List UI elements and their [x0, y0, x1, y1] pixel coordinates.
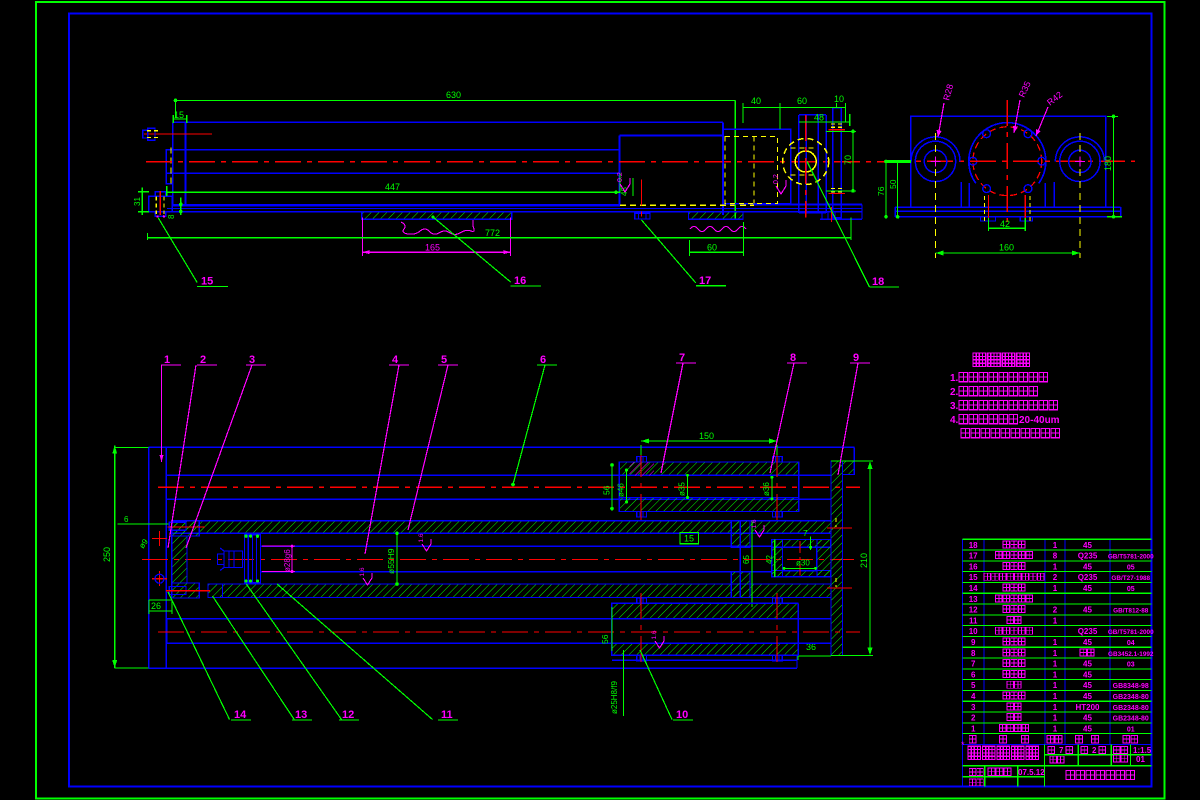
- svg-text:70: 70: [843, 155, 853, 165]
- svg-text:7: 7: [971, 660, 976, 669]
- dim phi25: [610, 650, 623, 716]
- head foot: [208, 584, 223, 598]
- svg-text:GB8348-98: GB8348-98: [1113, 683, 1149, 690]
- cyl bottom band: [223, 584, 832, 598]
- ear left: [911, 133, 961, 258]
- svg-text:250: 250: [102, 547, 112, 562]
- svg-text:1: 1: [1053, 724, 1058, 733]
- top-left bolt: [143, 128, 212, 140]
- svg-text:11: 11: [969, 616, 978, 625]
- lower-left bolt: [149, 191, 172, 217]
- svg-text:150: 150: [699, 431, 714, 441]
- svg-text:05: 05: [1127, 586, 1135, 593]
- svg-text:2: 2: [1053, 606, 1058, 615]
- guide rod upper: [158, 475, 860, 499]
- boss arc: [969, 123, 1046, 184]
- svg-text:1: 1: [164, 354, 170, 366]
- svg-text:GB3452.1-1992: GB3452.1-1992: [1108, 651, 1154, 658]
- dim 772: [148, 218, 852, 241]
- technical requirements: [950, 353, 1060, 438]
- svg-text:GB/T27-1988: GB/T27-1988: [1111, 575, 1150, 582]
- clevis dims: [742, 521, 817, 607]
- svg-text:1: 1: [1053, 616, 1058, 625]
- svg-text:45: 45: [1083, 714, 1092, 723]
- svg-text:07.5.12: 07.5.12: [1018, 768, 1045, 777]
- dim 210: [831, 461, 873, 656]
- svg-text:8: 8: [790, 352, 796, 364]
- end view base: [895, 207, 1121, 217]
- svg-text:65: 65: [742, 555, 751, 564]
- title block text: [961, 740, 1152, 786]
- svg-text:45: 45: [1083, 541, 1092, 550]
- svg-text:165: 165: [425, 243, 440, 253]
- wavy 1: [401, 220, 474, 235]
- callout 9: [838, 352, 870, 475]
- dim 36: [798, 642, 831, 660]
- pad 1: [362, 212, 512, 220]
- svg-text:GB/T5781-2000: GB/T5781-2000: [1108, 629, 1154, 636]
- bolt right: [822, 207, 841, 222]
- svg-text:03: 03: [1127, 662, 1135, 669]
- end view body: [911, 116, 1106, 207]
- svg-text:10: 10: [969, 627, 978, 636]
- svg-text:17: 17: [969, 552, 978, 561]
- shaft housing: [799, 115, 826, 213]
- callout 11: [277, 584, 458, 721]
- bearing upper: [619, 451, 799, 521]
- callout 7: [661, 352, 696, 473]
- dims 40 60 10: [743, 94, 846, 129]
- svg-text:GB/T5781-2000: GB/T5781-2000: [1108, 554, 1154, 561]
- callout 16: [432, 216, 542, 288]
- bolt holes: [969, 130, 1046, 193]
- svg-text:18: 18: [872, 276, 884, 288]
- svg-text:0.2: 0.2: [617, 172, 624, 182]
- label 15 box: [680, 533, 699, 544]
- dim 70: [826, 130, 856, 193]
- dim 76: [876, 160, 888, 219]
- sf mark a: [418, 533, 431, 551]
- svg-text:42: 42: [765, 555, 774, 564]
- svg-text:15: 15: [969, 573, 978, 582]
- housing outline: [149, 447, 855, 668]
- svg-text:GB2348-80: GB2348-80: [1113, 705, 1149, 712]
- end view centerlines: [884, 100, 1135, 222]
- svg-text:16: 16: [514, 275, 526, 287]
- svg-text:56: 56: [600, 634, 610, 644]
- callout 15: [158, 218, 228, 288]
- dim 50: [888, 161, 899, 218]
- bolt mid: [635, 180, 650, 223]
- callout 17: [641, 220, 726, 287]
- svg-text:1: 1: [1053, 681, 1058, 690]
- dim 60: [689, 222, 743, 256]
- svg-text:ø35: ø35: [678, 482, 687, 496]
- boss sides: [969, 183, 1045, 207]
- svg-text:6: 6: [540, 354, 546, 366]
- svg-text:48: 48: [814, 113, 824, 123]
- end flange: [829, 108, 846, 218]
- svg-text:1: 1: [1053, 660, 1058, 669]
- plate holes: [152, 531, 167, 586]
- svg-text:6: 6: [124, 515, 129, 524]
- svg-text:2.: 2.: [950, 387, 959, 398]
- clevis: [772, 539, 831, 577]
- svg-text:31: 31: [133, 197, 142, 206]
- svg-text:05: 05: [1127, 564, 1135, 571]
- svg-text:15: 15: [684, 534, 694, 544]
- svg-text:42: 42: [1000, 219, 1010, 229]
- cyl centerline: [142, 559, 854, 561]
- svg-text:6: 6: [971, 670, 976, 679]
- bearing lower dims: [600, 607, 612, 651]
- foot bolt lines: [985, 195, 1030, 222]
- guide rod lower: [158, 619, 860, 644]
- svg-text:9: 9: [971, 638, 976, 647]
- callout 10: [640, 650, 693, 721]
- svg-text:01: 01: [1127, 726, 1135, 733]
- wavy 2: [690, 227, 746, 232]
- center tick: [886, 160, 911, 163]
- gearbox box: [723, 129, 818, 204]
- svg-text:447: 447: [385, 182, 400, 192]
- svg-text:2: 2: [971, 714, 976, 723]
- dim 8: [167, 198, 183, 220]
- svg-text:180: 180: [1103, 156, 1113, 171]
- dim 630: [174, 90, 736, 219]
- svg-text:ø46: ø46: [617, 483, 626, 497]
- svg-text:160: 160: [999, 243, 1014, 253]
- svg-text:1.6: 1.6: [751, 519, 758, 528]
- svg-text:1: 1: [1053, 692, 1058, 701]
- svg-text:1:1.5: 1:1.5: [1133, 746, 1152, 755]
- svg-text:40: 40: [751, 96, 761, 106]
- svg-text:9: 9: [853, 352, 859, 364]
- svg-text:45: 45: [1083, 638, 1092, 647]
- gland: [731, 521, 750, 598]
- svg-text:26: 26: [151, 601, 161, 611]
- cyl top band: [172, 521, 831, 534]
- label R35: [1013, 80, 1033, 133]
- parts table text: [969, 541, 1154, 743]
- dim 150: [641, 431, 777, 455]
- svg-text:1: 1: [1053, 562, 1058, 571]
- bolt circle R35: [973, 127, 1042, 196]
- svg-text:45: 45: [1083, 562, 1092, 571]
- svg-text:04: 04: [1127, 640, 1135, 647]
- surface mark 2: [773, 174, 786, 194]
- svg-text:50: 50: [888, 179, 898, 189]
- dim 31: [133, 188, 149, 215]
- svg-text:45: 45: [1083, 584, 1092, 593]
- callout 13: [213, 596, 313, 721]
- svg-text:1: 1: [1053, 703, 1058, 712]
- callout 4: [365, 354, 409, 554]
- label R28: [937, 83, 956, 137]
- dim 15 top: [173, 110, 186, 123]
- foot left: [980, 217, 995, 221]
- dim 42 end: [989, 218, 1026, 231]
- parts table grid: [962, 539, 1151, 744]
- piston rod: [261, 546, 772, 571]
- svg-text:3: 3: [971, 703, 976, 712]
- svg-text:45: 45: [1083, 724, 1092, 733]
- svg-text:Q235: Q235: [1078, 552, 1098, 561]
- svg-text:7: 7: [1059, 746, 1064, 755]
- svg-text:8: 8: [971, 649, 976, 658]
- callout 2: [168, 354, 217, 548]
- bearing upper dims: [602, 463, 774, 510]
- svg-text:60: 60: [797, 96, 807, 106]
- svg-text:4: 4: [971, 692, 976, 701]
- dim 26: [149, 600, 172, 614]
- head block: [172, 521, 199, 598]
- svg-text:1.6: 1.6: [651, 630, 658, 639]
- svg-text:GB2348-80: GB2348-80: [1113, 716, 1149, 723]
- svg-text:45: 45: [1083, 692, 1092, 701]
- svg-text:17: 17: [699, 275, 711, 287]
- svg-text:0.2: 0.2: [773, 174, 780, 184]
- callout 5: [408, 354, 458, 530]
- svg-text:76: 76: [876, 186, 886, 196]
- svg-text:10: 10: [676, 709, 688, 721]
- svg-text:01: 01: [1136, 755, 1145, 764]
- svg-text:56: 56: [602, 485, 612, 495]
- svg-text:45: 45: [1083, 681, 1092, 690]
- dim 160: [936, 243, 1080, 256]
- svg-text:13: 13: [295, 709, 307, 721]
- svg-text:10: 10: [834, 94, 844, 104]
- svg-text:14: 14: [234, 709, 247, 721]
- svg-text:1: 1: [1053, 670, 1058, 679]
- top view body: [149, 122, 862, 219]
- label R42: [1036, 90, 1064, 136]
- callout 3: [186, 354, 266, 548]
- svg-text:7: 7: [803, 529, 808, 538]
- svg-text:ø25H8/f9: ø25H8/f9: [610, 681, 619, 714]
- svg-text:16: 16: [969, 562, 978, 571]
- dim 6 phi9: [118, 515, 169, 550]
- svg-text:1: 1: [1053, 584, 1058, 593]
- svg-text:12: 12: [969, 606, 978, 615]
- ear right: [1054, 133, 1104, 258]
- svg-text:3: 3: [249, 354, 255, 366]
- svg-text:1.6: 1.6: [418, 533, 425, 542]
- callout 6: [511, 354, 557, 486]
- callout 14: [168, 592, 251, 721]
- svg-text:5: 5: [971, 681, 976, 690]
- callout 18: [807, 162, 899, 289]
- svg-text:20-40um: 20-40um: [1019, 415, 1060, 426]
- svg-text:45: 45: [1083, 606, 1092, 615]
- svg-text:ø36: ø36: [762, 482, 771, 496]
- svg-text:ø55H9: ø55H9: [386, 548, 396, 574]
- svg-text:8: 8: [1053, 552, 1058, 561]
- surface mark 1: [617, 172, 630, 192]
- svg-text:15: 15: [201, 276, 213, 288]
- svg-text:772: 772: [485, 228, 500, 238]
- svg-text:14: 14: [969, 584, 978, 593]
- svg-text:18: 18: [969, 541, 978, 550]
- svg-text:2: 2: [200, 354, 206, 366]
- sf mark d: [751, 519, 764, 537]
- svg-text:45: 45: [1083, 670, 1092, 679]
- svg-text:1: 1: [971, 724, 976, 733]
- svg-text:1.: 1.: [950, 373, 959, 384]
- pad 2: [689, 212, 744, 220]
- end slab: [827, 461, 854, 656]
- centerline (top view): [146, 161, 900, 163]
- piston: [218, 535, 261, 583]
- svg-text:4.: 4.: [950, 415, 959, 426]
- svg-text:Q235: Q235: [1078, 573, 1098, 582]
- dim 447: [167, 173, 620, 196]
- dim 48 right: [799, 113, 850, 127]
- svg-text:45: 45: [1083, 660, 1092, 669]
- title block grid: [962, 744, 1151, 786]
- svg-text:4: 4: [392, 354, 399, 366]
- pulley circle: [783, 115, 829, 218]
- dim 165: [362, 218, 510, 257]
- svg-text:5: 5: [441, 354, 447, 366]
- svg-text:630: 630: [446, 90, 461, 100]
- svg-text:8: 8: [167, 214, 176, 219]
- callout 12: [246, 584, 359, 721]
- foot right: [1020, 217, 1032, 221]
- sf mark c: [651, 630, 664, 648]
- dim phi55H9: [386, 531, 399, 585]
- dim 180: [1103, 115, 1122, 219]
- svg-text:1: 1: [1053, 714, 1058, 723]
- svg-text:ø28g6: ø28g6: [283, 549, 292, 572]
- svg-text:7: 7: [679, 352, 685, 364]
- dim 48 mid: [620, 178, 633, 196]
- svg-text:GB2348-80: GB2348-80: [1113, 694, 1149, 701]
- svg-text:ø30: ø30: [796, 559, 810, 568]
- svg-text:12: 12: [342, 709, 354, 721]
- svg-text:13: 13: [969, 595, 978, 604]
- svg-text:2: 2: [1092, 746, 1097, 755]
- svg-text:GB/T812-88: GB/T812-88: [1113, 608, 1149, 615]
- svg-text:*: *: [961, 740, 965, 750]
- svg-text:1: 1: [1053, 638, 1058, 647]
- sf mark b: [359, 567, 372, 585]
- svg-text:3.: 3.: [950, 401, 959, 412]
- bearing lower: [612, 593, 798, 664]
- dim phi28g6: [262, 545, 295, 573]
- svg-text:11: 11: [441, 709, 453, 721]
- svg-text:60: 60: [707, 243, 717, 253]
- dim 250: [102, 446, 149, 668]
- svg-text:HT200: HT200: [1075, 703, 1100, 712]
- svg-text:1: 1: [1053, 649, 1058, 658]
- head bolts: [166, 522, 210, 594]
- svg-text:1.6: 1.6: [359, 567, 366, 576]
- svg-text:Q235: Q235: [1078, 627, 1098, 636]
- svg-text:2: 2: [1053, 573, 1058, 582]
- callout 1: [160, 354, 182, 462]
- svg-text:210: 210: [859, 553, 869, 568]
- callout 8: [770, 352, 807, 473]
- svg-text:1: 1: [1053, 541, 1058, 550]
